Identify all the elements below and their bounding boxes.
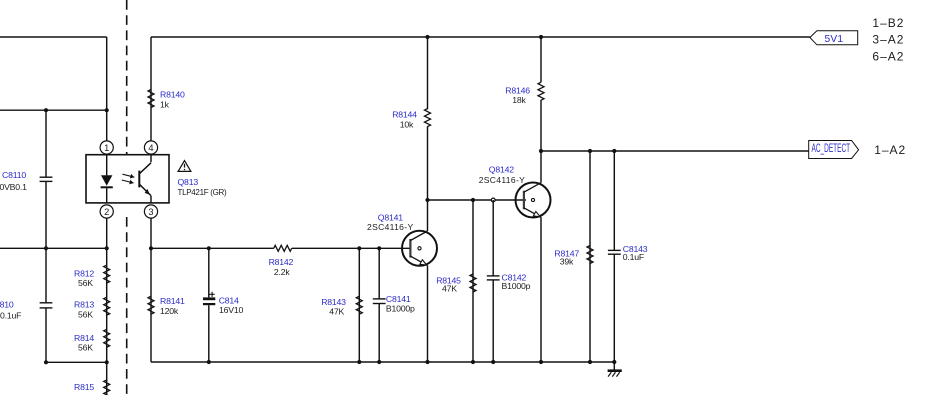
svg-text:1k: 1k [160,100,170,110]
svg-text:R8144: R8144 [392,110,417,120]
svg-text:10k: 10k [400,120,414,130]
svg-text:AC_DETECT: AC_DETECT [812,141,851,155]
svg-text:Q8141: Q8141 [378,212,403,222]
svg-text:TLP421F (GR): TLP421F (GR) [178,188,227,197]
svg-text:120k: 120k [160,306,179,316]
svg-text:1–A2: 1–A2 [874,143,906,157]
svg-text:R812: R812 [74,269,94,279]
svg-text:R8140: R8140 [160,89,185,99]
svg-text:3–A2: 3–A2 [872,33,904,47]
svg-text:R8142: R8142 [269,257,294,267]
svg-text:Q813: Q813 [178,177,199,187]
svg-text:2SC4116-Y: 2SC4116-Y [367,222,413,232]
svg-text:R8143: R8143 [321,297,346,307]
svg-text:56K: 56K [78,309,93,319]
svg-text:16V10: 16V10 [219,305,243,315]
svg-text:C814: C814 [219,296,239,306]
svg-text:56K: 56K [78,278,93,288]
svg-text:39k: 39k [560,257,574,267]
svg-text:4: 4 [148,143,153,153]
svg-text:1: 1 [104,143,109,153]
svg-text:R813: R813 [74,300,94,310]
svg-text:B1000p: B1000p [502,281,531,291]
svg-text:3: 3 [148,207,153,217]
svg-text:2: 2 [104,207,109,217]
svg-text:C8110: C8110 [2,170,26,180]
svg-text:56K: 56K [78,343,93,353]
svg-text:R8146: R8146 [505,85,530,95]
svg-text:C8141: C8141 [386,294,411,304]
svg-text:R814: R814 [74,333,94,343]
svg-text:2.2k: 2.2k [274,267,290,277]
svg-text:47K: 47K [329,307,344,317]
svg-text:Q8142: Q8142 [489,165,514,175]
svg-text:5V1: 5V1 [825,34,844,45]
svg-text:47K: 47K [442,284,457,294]
svg-text:R815: R815 [74,382,94,392]
svg-text:2SC4116-Y: 2SC4116-Y [479,175,525,185]
svg-text:C810: C810 [0,300,14,310]
svg-text:18k: 18k [512,95,526,105]
svg-text:0.1uF: 0.1uF [0,310,21,320]
svg-text:B1000p: B1000p [386,304,415,314]
svg-text:0.1uF: 0.1uF [623,252,644,262]
svg-text:50VB0.1: 50VB0.1 [0,182,27,192]
svg-text:1–B2: 1–B2 [872,16,904,30]
svg-text:R8141: R8141 [160,296,185,306]
svg-text:6–A2: 6–A2 [872,49,904,63]
